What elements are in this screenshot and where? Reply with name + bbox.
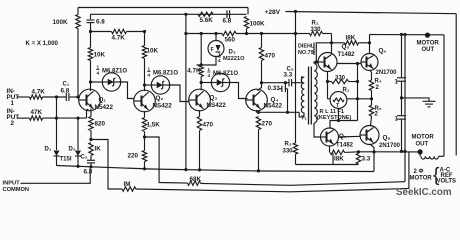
svg-text:Q₁: Q₁ [99,97,107,104]
svg-text:N5422: N5422 [264,103,283,110]
svg-text:INPUT: INPUT [3,181,21,187]
resistor 4.7K (Q3) [199,65,203,77]
wire 1M feedback rail [136,151,409,191]
wire input2 to Q1 [43,117,87,119]
svg-text:330: 330 [311,27,322,33]
wire 0.33 stub [284,83,286,86]
svg-text:R₁: R₁ [343,88,350,94]
svg-text:NS422: NS422 [153,103,173,110]
wire motor loop right [443,35,445,157]
wire 100K R-b bottom [246,29,248,34]
svg-text:1: 1 [218,52,221,57]
transformer T1 core [309,67,312,125]
resistor 68K [188,181,201,185]
node 0.33 bottom [286,111,289,114]
transistor Q8 [360,126,379,145]
node input2/D1 [55,117,58,120]
svg-text:D₁: D₁ [45,147,52,153]
wire D2 top [77,118,79,150]
node lamp Q7 link [337,119,340,122]
wire Q3 collector column [200,34,202,66]
node D3 junction [200,63,203,66]
capacitor C3 3.3 [288,79,290,87]
svg-text:C₂: C₂ [81,155,88,161]
svg-text:+28V: +28V [265,9,281,16]
node 560 wire left [214,32,217,35]
node A junction [89,30,92,33]
svg-text:3.3: 3.3 [362,156,371,163]
node C1/100K junction [76,95,79,98]
svg-text:270: 270 [262,121,273,128]
node Q5 base [315,60,318,63]
svg-text:10K: 10K [94,52,106,59]
node column common [184,168,187,171]
wire input2 [18,117,30,119]
wire 0.33 to emitter row [279,88,282,90]
svg-text:0.33: 0.33 [268,85,281,92]
svg-text:1: 1 [395,80,399,86]
wire 1.5K to 220 [144,132,146,151]
wire R4 to node [371,91,373,99]
wire D3 bottom [197,56,217,65]
wire W8 to motor [359,151,421,153]
lamp R1 RL11F1 [330,92,347,109]
wire Q3 emitter [199,110,201,117]
resistor 820 [89,117,93,131]
wire D1 top [56,97,58,150]
resistor 10K (Q1 collector) [90,32,92,48]
node input2/D2 [76,117,79,120]
node Q1 emitter network [89,138,92,141]
wire Q7 emitter [329,146,331,152]
wire Q6 collector [369,35,371,54]
node Q1 collector junction [89,80,92,83]
terminal MOTOR OUT bottom [418,149,423,154]
node common 220 [143,167,146,170]
node B junction [143,30,146,33]
svg-text:1: 1 [148,66,151,71]
wire C3 to transformer [292,77,304,83]
svg-text:Q₃: Q₃ [210,95,218,102]
svg-text:330: 330 [335,76,346,82]
svg-text:MOTOR: MOTOR [412,135,435,141]
resistor 10K (Q2 collector) [144,32,146,46]
wire Q6 emitter [370,70,372,80]
label bracket NO.79 [313,43,315,56]
node Q2 emitter/68K [143,135,146,138]
wire winding right [439,155,445,157]
svg-text:Q₂: Q₂ [156,95,164,102]
transistor Q4 [246,89,268,111]
svg-text:2N1700: 2N1700 [379,143,401,149]
wire 470a to node [261,61,263,83]
resistor 1K [89,143,93,156]
svg-text:R L 11 F1: R L 11 F1 [320,109,344,115]
svg-text:DIEHL: DIEHL [298,44,315,50]
diode D3 M22210 current regulator [208,41,224,57]
svg-text:4: 4 [208,73,211,78]
svg-text:470: 470 [203,122,214,129]
node 18K left [330,41,333,44]
svg-text:M2221O: M2221O [223,56,245,62]
svg-text:SeekIC.com: SeekIC.com [396,187,452,197]
svg-text:M6.8Z1O: M6.8Z1O [102,69,127,75]
svg-text:6.8: 6.8 [84,169,93,176]
node 0.33 tap [284,81,287,84]
node column wire33 crossing [184,32,187,35]
wire 470b to common [199,131,201,170]
wire R3 bottom row [296,164,359,166]
wire 560 row [186,33,222,35]
svg-text:M6.8Z1O: M6.8Z1O [153,71,178,77]
svg-text:220: 220 [128,153,139,160]
wire second rail [91,13,247,15]
node zener3 left [200,81,203,84]
node lamp riser crossing [356,97,359,100]
wire 68K branch [145,137,188,183]
svg-text:1,5K: 1,5K [147,122,161,129]
svg-text:4: 4 [97,71,100,76]
capacitor 6.8 (top-left) [87,19,95,21]
wire Q2 emitter [144,111,146,118]
resistor 560 [222,31,236,35]
resistor 470 (Q3 emitter) [197,117,201,131]
motor winding [421,156,439,159]
svg-text:330: 330 [283,149,294,155]
node 470a top [260,32,263,35]
wire zener1 to Q2 base [119,82,135,99]
wire secondary top to Q5 base [314,62,318,64]
wire Q7 base [314,123,321,137]
svg-text:K = X 1,000: K = X 1,000 [26,40,59,47]
node common 470b [198,168,201,171]
svg-text:R₂: R₂ [312,21,319,27]
node wire33 Q3 column [200,32,203,35]
node 3.3 top [357,150,360,153]
zener D4 quarter M6.8Z10 [91,81,105,83]
svg-text:1: 1 [208,67,211,72]
node 270 top [257,111,260,114]
resistor R4 2 [369,80,373,91]
svg-text:N5422: N5422 [95,104,114,111]
resistor 18K (Q7) [330,150,345,154]
wire Q1 emitter [90,109,92,117]
svg-text:2N1700: 2N1700 [376,70,398,76]
svg-text:6.8: 6.8 [96,19,105,26]
rail2 5.6K [198,12,213,16]
wire zener2 to Q3 base [168,85,190,102]
capacitor 0.33 [281,86,283,93]
svg-text:47K: 47K [31,109,43,116]
node W8 plain col [403,150,406,153]
svg-text:MOTOR: MOTOR [417,41,440,47]
svg-text:R₃: R₃ [285,142,292,148]
node R2 left [294,32,297,35]
svg-text:100K: 100K [250,21,266,28]
node zener2 left [143,83,146,86]
wire Q7-Q8 link [339,135,361,138]
diode D2 T151 [75,151,81,157]
resistor 100K R-b [244,17,248,29]
svg-text:OUT: OUT [416,142,429,148]
transistor Q6 [361,54,378,71]
svg-text:VOLTS: VOLTS [437,179,457,185]
svg-text:NO.79: NO.79 [298,50,314,56]
svg-text:3.3: 3.3 [284,72,293,79]
svg-text:4.7K: 4.7K [32,89,46,96]
svg-text:5.6K: 5.6K [200,17,214,24]
node Q4 collector [260,81,263,84]
wire common rail [57,166,375,172]
svg-text:10K: 10K [147,48,159,55]
resistor 47K input2 [30,116,43,120]
wire C3 left [262,82,289,84]
svg-text:100K: 100K [53,19,69,26]
node 100Kb/560 [245,32,248,35]
wire rail2 to common column [185,14,187,169]
svg-text:6.8: 6.8 [61,88,70,95]
resistor 1M [122,187,136,191]
wire Q5 emitter [327,72,329,82]
wire 4.7K to Q3 [200,77,202,91]
node R4/R5 [370,97,373,100]
wire Q7 collector link [330,121,358,129]
node motor cap2 [403,33,406,36]
svg-text:IM: IM [124,181,131,188]
transistor Q1 [79,89,101,111]
resistor R5 2 [371,99,373,106]
zener D6 quarter M6.8Z10 [201,82,213,84]
wire input1 to C1 [43,96,67,98]
node 330 riser [356,80,359,83]
svg-text:F: F [211,47,215,53]
node +28V [294,10,297,13]
wire R5 to Q8 [371,116,372,126]
node Q5 emitter [326,80,329,83]
svg-text:T1482: T1482 [338,52,356,58]
wire ground stub [402,98,430,101]
wire 820 to node [90,131,92,140]
svg-text:M6.8Z1O: M6.8Z1O [213,71,238,77]
svg-text:MOTOR: MOTOR [410,175,433,181]
node 18K right [368,41,371,44]
svg-text:1: 1 [11,100,15,107]
svg-text:2: 2 [11,120,15,127]
resistor 1.5K [142,118,146,132]
wire Q8 emitter [370,144,374,171]
svg-text:OUT: OUT [422,47,435,53]
capacitor 1 (lower) [401,98,403,115]
node motor cap1 [400,33,403,36]
svg-text:R₄: R₄ [375,79,382,85]
node common 270 [257,169,260,172]
wire R3 riser [332,153,334,165]
resistor 330 (Q5 emitter) [328,81,332,83]
wire input1 [18,96,30,98]
svg-text:4.7K: 4.7K [112,35,126,42]
wire +28V column [295,12,297,144]
wire Q4 collector jog [258,83,262,91]
node rail2 drop [184,13,187,16]
resistor R3 330 [293,143,297,154]
wire Q4 emitter [256,110,258,112]
svg-text:COMMON: COMMON [3,187,30,193]
rail2 cap 6.8 [226,10,228,18]
resistor 470 (Q4 collector) [259,48,263,61]
svg-text:4: 4 [218,58,221,63]
transistor Q2 [134,90,156,112]
wire C1 to Q1 base [69,96,80,98]
wire D2 to common [77,156,79,166]
svg-text:I8K: I8K [346,35,356,42]
svg-text:820: 820 [95,121,106,128]
transistor Q7 [321,128,339,146]
svg-text:T₁: T₁ [301,116,307,122]
transistor Q3 [189,89,211,111]
wire top rail [78,7,248,9]
svg-text:470: 470 [265,53,276,60]
wire 470a top [261,34,263,48]
svg-text:T15I: T15I [60,157,72,163]
svg-text:4: 4 [148,73,151,78]
wire right border [455,14,457,156]
svg-text:Q₈: Q₈ [383,135,391,142]
node input1/D1 [55,95,58,98]
svg-text:T1482: T1482 [336,142,354,148]
capacitor C1 6.8 [65,93,67,101]
node Q6 base wire [356,62,359,65]
svg-text:1: 1 [97,64,100,69]
wire Q6 base riser [357,64,359,121]
svg-text:6.8: 6.8 [223,18,232,25]
transformer T1 secondary [314,64,317,124]
resistor 100K R-a [76,15,80,29]
wire D1 to common [56,156,58,166]
svg-text:560: 560 [225,37,236,44]
svg-text:NS422: NS422 [207,102,227,109]
svg-text:IK: IK [95,146,102,153]
zener D5 quarter M6.8Z10 [145,84,154,86]
diode D1 T151 [54,151,60,157]
terminal MOTOR OUT top [425,33,430,38]
node common C2 [89,165,92,168]
node ground tap [400,96,403,99]
svg-text:D₃: D₃ [229,50,236,56]
transformer T1 primary [301,77,304,113]
resistor 4.7K input [30,95,43,99]
svg-text:2: 2 [375,111,379,117]
wire winding drop [419,152,421,156]
node common D2 [76,165,79,168]
capacitor C2 6.8 [90,156,92,161]
resistor R2 330 [296,33,310,35]
resistor 3.3 [356,153,360,164]
svg-text:D₂: D₂ [69,147,76,153]
node Q8 emitter [372,150,375,153]
resistor 220 [142,151,146,162]
resistor 270 [256,117,260,130]
resistor 4.7K (interstage) [91,31,112,33]
resistor 18K (Q5-Q6) [332,42,345,44]
wire input common leader [21,167,91,184]
wire lamp to Q7 [338,108,340,120]
wire D3 top [215,34,217,42]
wire emitter row [257,111,300,113]
svg-text:I8K: I8K [334,156,344,163]
svg-text:2: 2 [376,85,380,91]
wire Q5 collector [331,34,333,54]
ground symbol [423,100,436,102]
svg-text:2 Φ: 2 Φ [414,169,424,175]
svg-text:Q₆: Q₆ [379,48,387,55]
wire lamp column [327,82,329,99]
wire R2 rail [286,12,457,14]
wire Q1 collector down [90,82,92,91]
transistor Q5 [318,53,337,72]
wire Q5 to Q6 base [337,63,361,65]
svg-text:68K: 68K [190,176,202,183]
wire to 1M feedback [91,140,122,190]
wire 100K to input node [77,29,79,98]
wire primary bottom [299,112,304,117]
wire zener3 to Q4 base [229,83,248,99]
wire 220 to common [144,162,146,169]
svg-text:4.7K: 4.7K [187,68,201,75]
wire 270 to common [258,130,260,171]
wire motor line [370,34,445,36]
wire base riser [316,43,331,62]
wire lamp right [347,98,372,100]
capacitor 1 (upper) [401,35,403,78]
node W8 cap col [400,150,403,153]
wire 68K to output column [201,182,406,186]
wire plain output column [404,35,406,182]
